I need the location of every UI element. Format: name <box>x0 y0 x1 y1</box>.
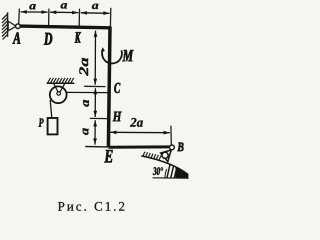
dimension a (H to E) <box>94 120 96 144</box>
pin circle A <box>16 24 21 29</box>
label H <box>113 112 122 122</box>
label 30 deg <box>153 167 163 175</box>
label a (rotated, H-E) <box>83 128 89 135</box>
dimension 2a (vertical, corner to C) <box>94 31 96 85</box>
label P <box>39 119 44 127</box>
label 2a (rotated) <box>79 58 88 76</box>
moment M curved arrow <box>102 50 122 63</box>
dimension tick 4 <box>109 8 111 27</box>
roller wheel <box>162 152 168 158</box>
label K <box>75 32 81 43</box>
beam E to B (horizontal) <box>108 145 169 148</box>
label a (rotated, C-H) <box>83 100 89 107</box>
weight P box <box>48 118 58 134</box>
label C <box>114 83 120 93</box>
tick at H <box>90 117 108 119</box>
incline surface line <box>141 156 188 175</box>
dimension tick 3 <box>78 9 80 26</box>
ceiling line above pulley <box>47 82 75 84</box>
dimension a (C to H) <box>94 88 96 117</box>
label a 1 <box>29 4 35 9</box>
pulley axle <box>57 92 61 96</box>
dimension line a (D-K) <box>50 11 78 13</box>
angle arc <box>165 169 167 178</box>
caption <box>58 202 124 211</box>
cable pulley to beam (horizontal) <box>66 91 109 93</box>
tick at E <box>85 146 108 148</box>
label E <box>104 150 112 162</box>
dimension line a (K-corner) <box>81 12 110 15</box>
incline hatching (upper left) <box>143 152 162 161</box>
label A <box>13 33 21 44</box>
beam corner to E (vertical) <box>108 26 110 147</box>
label B <box>177 143 183 152</box>
roller support triangle at B <box>161 150 172 162</box>
pin circle B <box>170 145 175 150</box>
label M <box>122 50 133 61</box>
wedge fill near vertex <box>176 167 189 178</box>
dimension 2a (horizontal, E to B) <box>110 131 170 133</box>
ceiling hatching <box>48 78 74 83</box>
tick at C <box>84 85 105 87</box>
cable down to weight <box>50 100 52 118</box>
tick at B (right end of 2a) <box>170 126 172 145</box>
pulley wheel <box>50 86 67 103</box>
ground horizontal line under 30 deg <box>153 177 189 179</box>
label 2a (E-B) <box>130 118 143 127</box>
dimension tick 1 <box>18 9 21 24</box>
pin support triangle at A <box>8 21 16 31</box>
dimension line a (A-D) <box>21 11 48 13</box>
label a 2 <box>61 3 67 8</box>
wall hatching at A <box>2 12 8 39</box>
pulley bracket <box>54 84 59 93</box>
label a 3 <box>92 4 98 9</box>
label D <box>44 33 52 45</box>
beam A to corner (horizontal) <box>20 26 111 28</box>
dimension tick 2 <box>48 9 50 26</box>
